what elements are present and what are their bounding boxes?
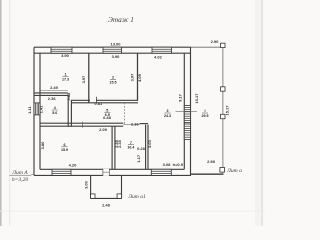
veranda label bbox=[202, 109, 209, 118]
svg-text:1.41: 1.41 bbox=[38, 105, 43, 114]
partition room1-room3 bbox=[88, 53, 90, 103]
svg-text:3.90: 3.90 bbox=[61, 53, 70, 58]
dim line under 2.49 bbox=[41, 90, 68, 92]
svg-text:10.17: 10.17 bbox=[194, 93, 199, 104]
svg-text:Лит а1: Лит а1 bbox=[127, 194, 146, 200]
svg-text:24.3: 24.3 bbox=[164, 114, 171, 118]
svg-text:15.9: 15.9 bbox=[61, 148, 68, 152]
svg-text:15.5: 15.5 bbox=[110, 80, 117, 84]
svg-text:2.09: 2.09 bbox=[99, 127, 108, 132]
svg-text:29.5: 29.5 bbox=[202, 114, 209, 118]
svg-text:5: 5 bbox=[106, 108, 108, 112]
svg-text:2.98: 2.98 bbox=[207, 159, 216, 164]
svg-text:0.81: 0.81 bbox=[94, 101, 103, 106]
svg-text:2.49: 2.49 bbox=[50, 85, 59, 90]
door threshold corridor-room6 bbox=[123, 124, 139, 126]
svg-text:Этаж 1: Этаж 1 bbox=[108, 16, 134, 24]
svg-text:3.90: 3.90 bbox=[112, 54, 121, 59]
svg-text:3.97: 3.97 bbox=[81, 75, 86, 84]
svg-text:2.35: 2.35 bbox=[117, 139, 122, 148]
svg-text:4.09: 4.09 bbox=[137, 73, 142, 82]
svg-text:15.17: 15.17 bbox=[224, 105, 229, 116]
room6 label bbox=[127, 141, 134, 150]
window B2 bottom wall bbox=[151, 169, 171, 175]
porch left line bbox=[90, 175, 92, 198]
svg-text:2.48: 2.48 bbox=[102, 203, 111, 208]
veranda post 2 bbox=[221, 87, 225, 91]
veranda right line bbox=[222, 47, 224, 175]
porch foot right bbox=[117, 194, 121, 199]
dim line right wall window bbox=[176, 110, 198, 112]
window right wall upper bbox=[184, 106, 190, 123]
svg-text:2.36: 2.36 bbox=[48, 96, 57, 101]
svg-text:Лит а: Лит а bbox=[226, 168, 242, 174]
veranda post bottom bbox=[220, 168, 225, 173]
page background bbox=[0, 0, 265, 226]
room4 label bbox=[164, 109, 171, 118]
veranda post 3 bbox=[221, 114, 225, 118]
svg-text:9.17: 9.17 bbox=[178, 93, 183, 102]
window right wall lower bbox=[184, 124, 190, 140]
room6 top wall corner stub bbox=[140, 123, 149, 125]
svg-text:1.17: 1.17 bbox=[136, 154, 141, 163]
porch right line bbox=[121, 175, 123, 198]
svg-text:0.28: 0.28 bbox=[137, 146, 146, 151]
svg-text:3.80: 3.80 bbox=[40, 141, 45, 150]
veranda bottom line bbox=[191, 173, 223, 175]
scan band right bbox=[255, 0, 263, 226]
svg-text:4.02: 4.02 bbox=[154, 54, 163, 59]
svg-text:3.97: 3.97 bbox=[130, 73, 135, 82]
svg-text:6: 6 bbox=[64, 143, 66, 147]
faint horizontal line bottom bbox=[0, 210, 265, 213]
svg-text:10.4: 10.4 bbox=[127, 146, 134, 150]
outer wall top bbox=[34, 46, 191, 48]
veranda post top bbox=[221, 43, 225, 47]
outer wall right bbox=[183, 53, 185, 169]
corridor bottom wall bbox=[40, 122, 123, 124]
window W2 top wall bbox=[103, 47, 122, 53]
scan fold line left bbox=[9, 0, 10, 226]
svg-text:h=3,20: h=3,20 bbox=[12, 177, 29, 183]
svg-text:7: 7 bbox=[130, 141, 132, 145]
svg-text:1: 1 bbox=[65, 73, 67, 77]
porch bottom line bbox=[91, 197, 122, 199]
partition room3-room4 bbox=[137, 53, 139, 100]
window B1 bottom wall bbox=[52, 169, 71, 175]
scan edge left dark strip bbox=[0, 0, 2, 226]
door opening to porch in bottom wall bbox=[103, 169, 109, 176]
porch foot left bbox=[91, 194, 95, 199]
svg-text:3: 3 bbox=[167, 109, 169, 113]
partition room5-room6 bbox=[111, 126, 113, 169]
svg-text:3.00: 3.00 bbox=[84, 180, 89, 189]
scan line right bbox=[262, 0, 263, 226]
svg-text:3.08: 3.08 bbox=[163, 162, 172, 167]
veranda top line bbox=[191, 46, 223, 48]
window W1 top wall bbox=[51, 47, 72, 53]
svg-text:I: I bbox=[205, 109, 206, 113]
room1 label bbox=[62, 73, 69, 82]
svg-text:2: 2 bbox=[112, 76, 114, 80]
corridor label bbox=[104, 108, 110, 117]
room3 label bbox=[110, 76, 117, 85]
svg-text:4: 4 bbox=[54, 106, 56, 110]
svg-text:5.6: 5.6 bbox=[52, 111, 57, 115]
corridor top wall lower line bbox=[71, 102, 138, 104]
window left wall bbox=[34, 103, 40, 115]
svg-text:2.90: 2.90 bbox=[211, 39, 220, 44]
svg-text:13.00: 13.00 bbox=[110, 41, 121, 46]
outer wall bottom bbox=[34, 174, 191, 176]
svg-text:0.88: 0.88 bbox=[66, 92, 71, 101]
outer wall left bbox=[33, 47, 35, 175]
corridor top wall upper line bbox=[71, 99, 90, 101]
svg-text:h=0.9: h=0.9 bbox=[173, 162, 184, 167]
wall room6 right bbox=[145, 125, 147, 170]
wall room2 right bbox=[67, 95, 69, 126]
wall room1-room2 bbox=[34, 92, 68, 94]
svg-text:6.9: 6.9 bbox=[105, 113, 110, 117]
door jamb tick room5 bbox=[82, 122, 84, 128]
room5 label bbox=[61, 143, 68, 152]
window W3 top wall bbox=[152, 47, 172, 53]
svg-text:3.03: 3.03 bbox=[147, 139, 152, 148]
door jamb tick corridor top bbox=[95, 97, 97, 103]
svg-text:17.3: 17.3 bbox=[62, 77, 69, 81]
label Lit A h=3.20 bbox=[10, 170, 35, 183]
svg-text:4.20: 4.20 bbox=[69, 162, 78, 167]
dashed opening line corridor-room4 bbox=[124, 103, 126, 125]
svg-text:2.36: 2.36 bbox=[131, 122, 140, 127]
room2 label bbox=[52, 106, 58, 115]
svg-text:1.11: 1.11 bbox=[27, 105, 32, 113]
